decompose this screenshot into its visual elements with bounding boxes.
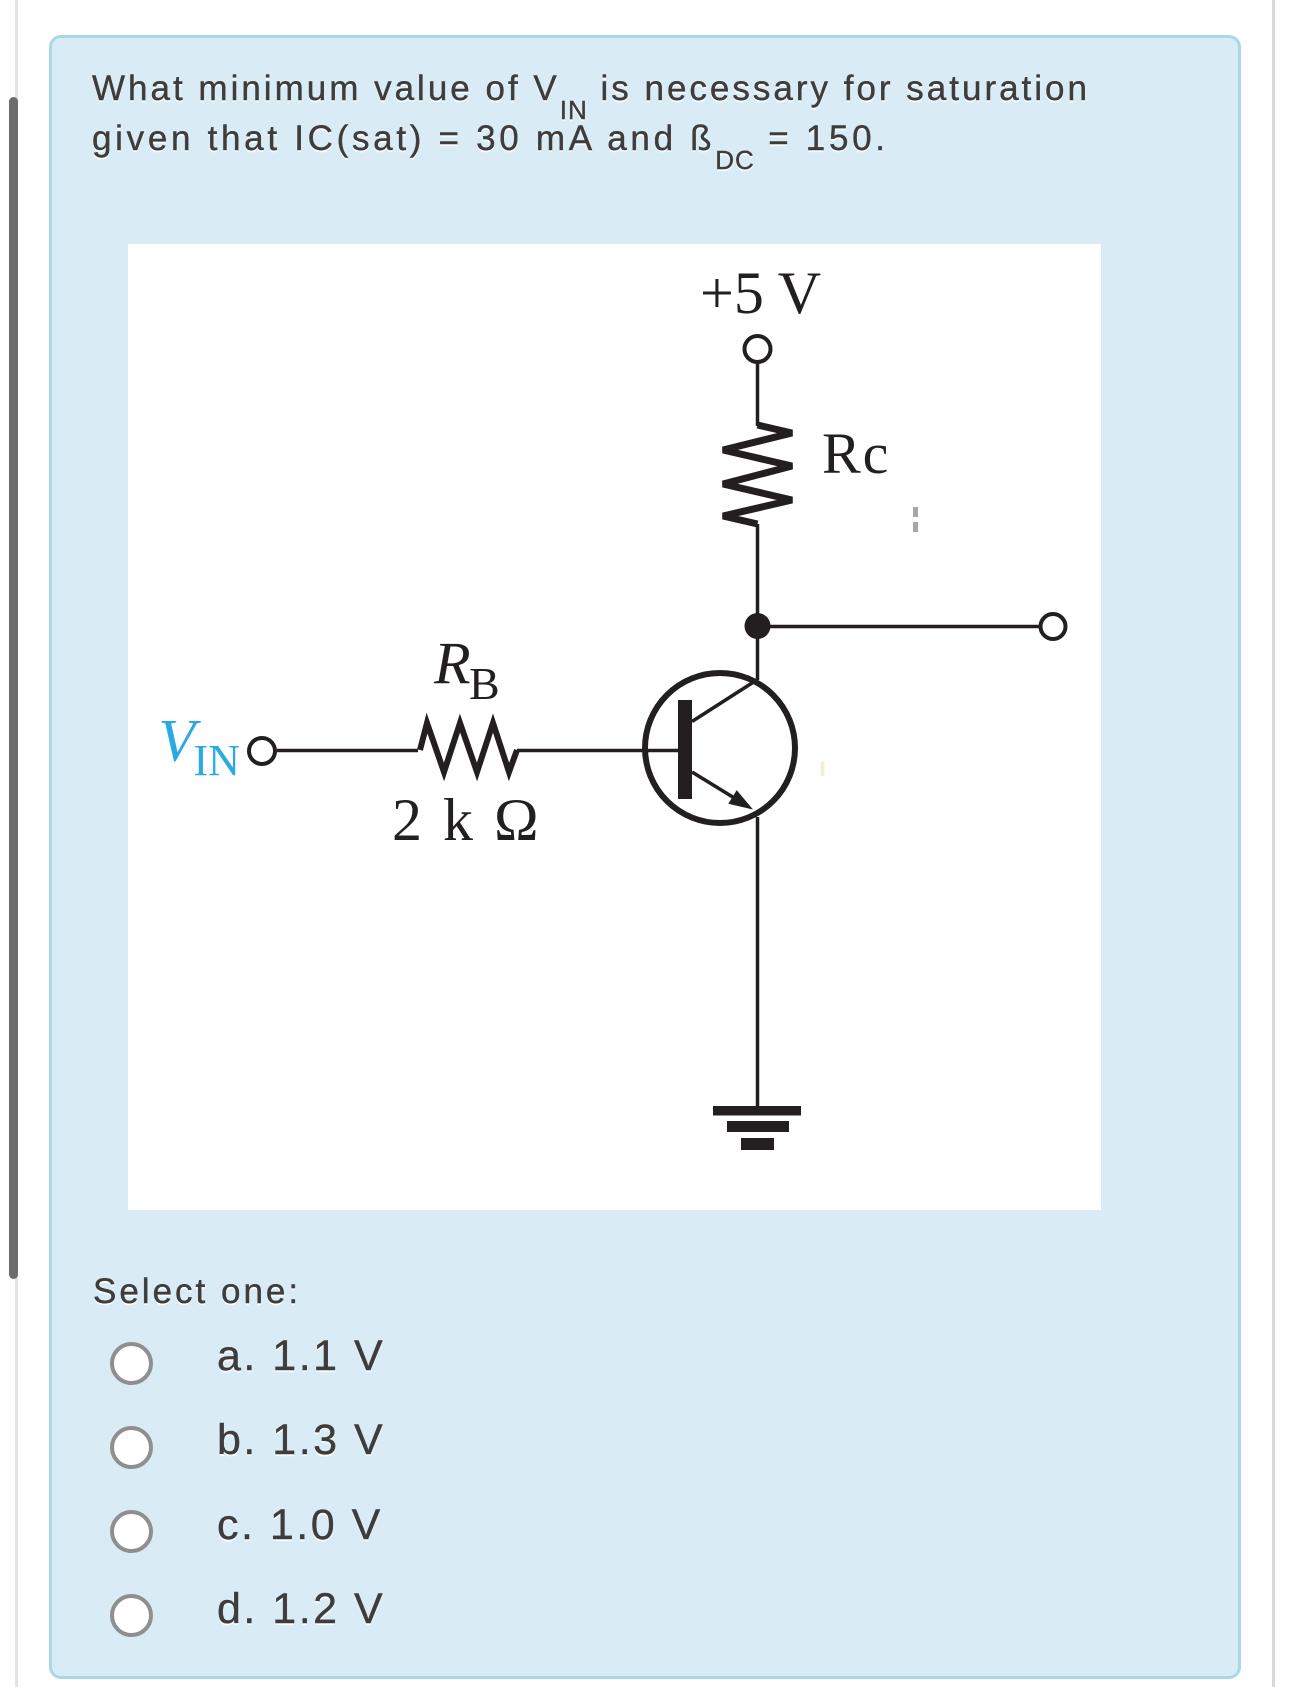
wire emitter to ground <box>756 817 760 1106</box>
stray yellow mark <box>821 762 825 776</box>
ground <box>713 1106 801 1150</box>
radio option a <box>110 1342 153 1385</box>
node collector junction <box>745 613 771 639</box>
wire node to output terminal <box>758 625 1041 629</box>
wire VIN terminal to RB <box>277 749 418 753</box>
label RB <box>433 631 500 710</box>
left scrollbar track line <box>15 0 18 1687</box>
terminal +5 V <box>745 336 771 362</box>
resistor Rc <box>723 425 792 524</box>
svg-text:+5 V: +5 V <box>700 260 821 326</box>
svg-text:B: B <box>469 658 500 709</box>
circuit image white box <box>128 244 1101 1210</box>
wire node to collector <box>756 626 760 680</box>
scrollbar thumb <box>9 97 18 1279</box>
svg-text:IN: IN <box>194 736 240 785</box>
terminal output <box>1041 614 1066 639</box>
wire Rc to collector node <box>756 524 760 626</box>
radio option c <box>110 1510 153 1553</box>
question text <box>92 65 1192 165</box>
right page divider line <box>1272 0 1275 1687</box>
wire supply terminal to Rc <box>756 363 760 427</box>
stray scan mark <box>913 507 918 532</box>
svg-text:R: R <box>433 631 471 697</box>
resistor RB <box>420 723 517 772</box>
wire RB to base <box>517 749 678 753</box>
label VIN <box>159 708 240 786</box>
svg-text:Rc: Rc <box>822 421 890 486</box>
svg-text:2 k Ω: 2 k Ω <box>392 787 542 853</box>
radio option b <box>110 1426 153 1469</box>
select one prompt <box>93 1274 301 1309</box>
transistor Q1 <box>645 673 795 823</box>
radio option d <box>110 1594 153 1637</box>
terminal VIN <box>249 738 275 764</box>
